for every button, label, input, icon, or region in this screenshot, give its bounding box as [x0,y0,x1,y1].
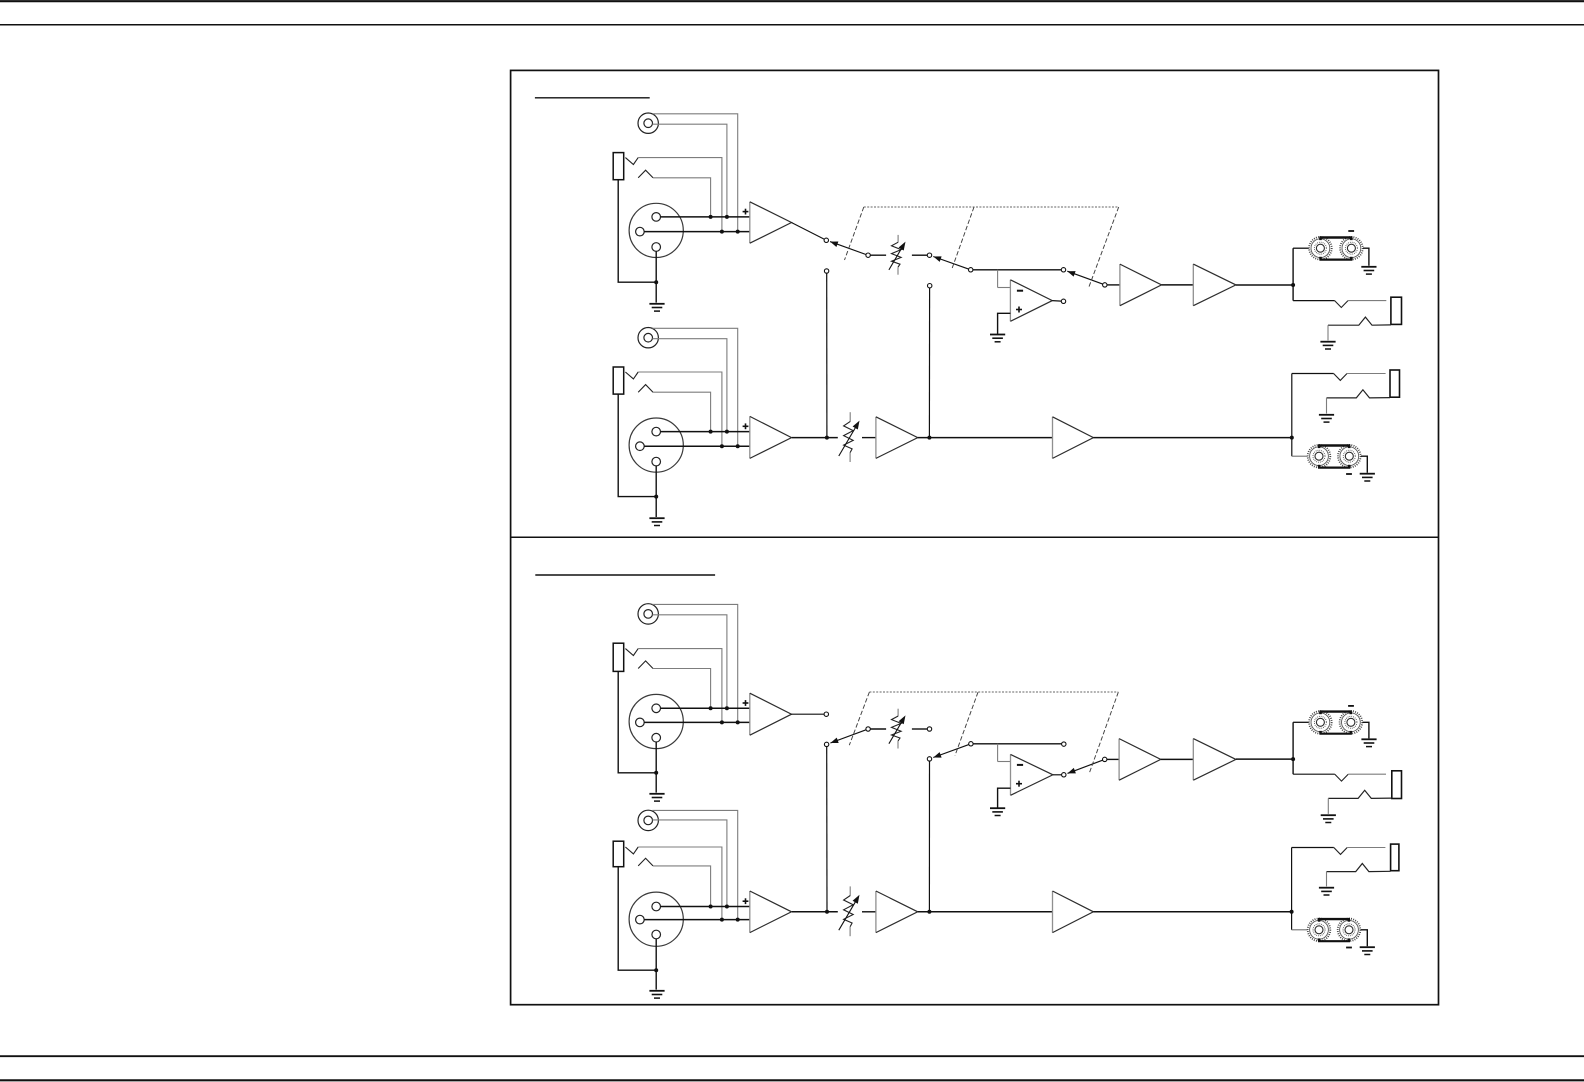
connector phone jack J1 (block1 ch A) tip contact [625,158,638,165]
node S4 contact b [824,742,828,746]
wire TB2 ground lead [1361,456,1367,473]
wire output B to posts (block2) [1292,929,1308,931]
node J3 (block2 ch A) plus label [743,700,749,706]
ground output jack P1 (block1 ch A) ground [1320,342,1335,349]
wire page top rule [0,0,1584,2]
wire output B vertical up (block2) [1291,848,1293,912]
connector phone jack J4 (block2 ch B) ring contact [638,858,653,866]
connector XLR J2 (block1 ch B) pin 3 [652,457,661,466]
wire U3 to U4 [1162,284,1194,286]
node J1 (block1 ch A) hot junction a [709,215,713,219]
node TB1 (block1 ch A) top bar [1319,238,1352,241]
wire phone jack J3 (block2 ch A) tip lead [638,649,722,723]
node U9 (block2) minus label [1017,764,1023,766]
resistor trim pot VR3 (block2 ch A) wiper arrow [889,715,906,743]
wire J3 (block2 ch A) pin3 ground stem [655,742,657,793]
wire S2 common to S3 contact a [973,269,1061,271]
wire S1 contact b to ch B bus [826,273,828,437]
connector XLR J4 (block2 ch B) shell [629,892,683,946]
wire S5 gang slant [955,692,978,755]
wire S4 gang slant [849,692,869,745]
node TB2 (block1 ch B) top bar [1318,446,1351,449]
connector output jack P2 (block1 ch B) sleeve [1390,370,1400,397]
connector output jack P3 (block2 ch A) tip contact [1335,774,1348,781]
node J2 (block1 ch B) hot junction a [709,430,713,434]
wire RCA J1 (block1 ch A) tip lead [652,124,727,217]
wire phone jack J4 (block2 ch B) tip lead [638,847,722,920]
connector output jack P1 (block1 ch A) tip contact [1335,301,1348,308]
connector XLR J4 (block2 ch B) pin 1 [636,915,645,924]
wire S2 contact b to ch B bus [928,288,930,438]
wire S2 gang slant [952,207,975,270]
node TB2 (block1 ch B) bottom bar [1318,465,1351,468]
resistor trim pot VR3 (block2 ch A) top stub [897,709,899,716]
node J4 (block2 ch B) hot junction b [725,905,729,909]
connector output jack P2 (block1 ch B) tip lead [1292,373,1334,375]
node S6 contact b [1062,773,1066,777]
ground output jack P2 (block1 ch B) ground [1319,415,1334,422]
wire U9 (block2) inverting tap [998,744,1011,762]
wire J3 (block2 ch A) cold bus [644,721,750,723]
ground TB4 ground [1360,947,1375,954]
node S6 common [1103,757,1107,761]
connector binding post TB4 (block2 ch B) - [1338,919,1361,942]
resistor trim pot VR3 (block2 ch A) bottom stub [897,741,899,749]
node J3 (block2 ch A) hot junction a [709,706,713,710]
wire output B vertical down (block2) [1291,912,1293,930]
node output B junction (block2) [1290,910,1294,914]
node TB4 (block2 ch B) top bar [1318,919,1350,922]
wire J4 (block2 ch B) cold bus [644,919,750,921]
connector output jack P4 (block2 ch B) tip contact [1334,848,1347,855]
node S2 contact b [928,284,932,288]
node U9 (block2) plus label [1016,781,1022,787]
ground TB1 ground [1361,267,1376,274]
switch lever S6 (block2) [1068,760,1103,773]
resistor trim pot VR4 (block2 ch B) wiper arrow [839,895,860,930]
wire output jack P2 (block1 ch B) tip tail [1347,373,1386,375]
ground U9 (block2) reference ground [990,808,1005,815]
node title underline block 1 [535,97,650,99]
connector output jack P4 (block2 ch B) sleeve [1391,844,1399,871]
node J1 (block1 ch A) cold junction a [720,230,724,234]
wire RCA J4 (block2 ch B) shield lead [652,810,737,919]
wire U8 output to S4 contact a [791,713,824,715]
wire S4 contact b to ch B bus [826,747,828,912]
wire U1 output to S1 contact a [791,223,826,241]
wire U2 (block1) inverting tap [998,270,1011,288]
wire RCA J1 (block1 ch A) shield lead [652,114,737,232]
wire S3 common to U3 [1107,284,1120,286]
wire U9 output [1053,774,1062,776]
connector phone jack J4 (block2 ch B) tip contact [625,847,638,854]
connector RCA jack J1 (block1 ch A) [638,113,658,133]
node ch B junction a (block2) [825,910,829,914]
node J3 (block2 ch A) cold junction b [736,720,740,724]
connector output jack P4 (block2 ch B) tip lead [1292,847,1334,849]
connector RCA jack J2 (block1 ch B) [638,328,658,348]
wire output jack P3 (block2 ch A) ground stem [1327,798,1329,814]
op-amp input buffer J3 (block2 ch A) [750,693,792,735]
node title underline block 2 [535,574,715,576]
resistor trim pot VR2 (block1 ch B) top stub [849,412,851,421]
ground J3 (block2 ch A) input ground [649,794,664,801]
node S5 contact a [927,727,931,731]
node TB3 (block2 ch A) bottom bar [1319,731,1352,734]
wire S5 contact b to ch B bus [928,761,930,912]
wire output jack P1 (block1 ch A) tip tail [1348,300,1386,302]
connector binding post TB4 (block2 ch B) + [1308,919,1331,942]
node J3 (block2 ch A) cold junction a [720,720,724,724]
node TB4 (block2 ch B) minus label [1346,947,1352,949]
node J3 (block2 ch A) hot junction b [725,706,729,710]
op-amp inverter U2 (block1) [1010,280,1052,322]
connector XLR J1 (block1 ch A) pin 2 [652,213,661,222]
op-amp inverter U9 (block2) [1011,754,1053,795]
switch lever S3 (block1) [1067,271,1102,284]
node J3 (block2 ch A) ground junction [654,771,658,775]
node J1 (block1 ch A) ground junction [654,280,658,284]
wire S1 gang slant [845,207,864,260]
connector phone jack J1 (block1 ch A) ring contact [638,170,653,178]
node S3 common [1103,283,1107,287]
node S6 contact a [1062,742,1066,746]
wire J1 (block1 ch A) sleeve ground run [618,180,656,283]
connector phone jack J3 (block2 ch A) tip contact [625,649,638,656]
node J1 (block1 ch A) plus label [743,209,749,215]
node TB2 (block1 ch B) minus label [1346,473,1352,475]
resistor trim pot VR1 (block1 ch A) bottom stub [897,267,899,275]
connector XLR J1 (block1 ch A) pin 3 [652,243,661,252]
wire U7 to output node [1093,437,1291,439]
connector XLR J2 (block1 ch B) pin 1 [636,442,645,451]
switch lever S2 (block1) [933,256,968,269]
wire J2 (block1 ch B) hot bus [661,431,750,433]
wire page bottom rule [0,1079,1584,1081]
connector phone jack J2 (block1 ch B) tip contact [625,372,638,379]
ground output jack P3 (block2 ch A) ground [1321,815,1336,822]
connector phone jack J3 (block2 ch A) sleeve [613,643,624,671]
resistor trim pot VR4 (block2 ch B) bottom stub [849,927,851,936]
connector binding post TB2 (block1 ch B) - [1338,445,1361,468]
node J4 (block2 ch B) ground junction [654,968,658,972]
connector XLR J3 (block2 ch A) pin 1 [636,718,645,727]
node J2 (block1 ch B) hot junction b [725,430,729,434]
wire U14 to output node [1093,911,1291,913]
ground J4 (block2 ch B) input ground [649,991,664,998]
ground TB3 ground [1361,739,1376,746]
wire TB1 ground lead [1363,248,1369,266]
resistor trim pot VR1 (block1 ch A) element [892,242,902,267]
node J2 (block1 ch B) plus label [743,423,749,429]
connector binding post TB3 (block2 ch A) - [1340,711,1363,734]
op-amp driver U4 (block1) [1193,264,1236,306]
wire U13 to U14 [918,911,1053,913]
connector XLR J3 (block2 ch A) pin 2 [652,704,661,713]
connector phone jack J3 (block2 ch A) ring contact [638,661,653,669]
connector output jack P2 (block1 ch B) tip contact [1334,374,1347,381]
op-amp input buffer J2 (block1 ch B) [750,416,792,458]
wire TB3 ground lead [1363,722,1369,738]
resistor trim pot VR3 (block2 ch A) element [892,716,902,741]
node output A junction (block1) [1291,283,1295,287]
wire phone jack J2 (block1 ch B) ring lead [653,392,711,431]
wire S6 gang slant [1090,692,1119,772]
wire S3 gang slant [1089,207,1119,288]
wire RCA J3 (block2 ch A) tip lead [652,615,727,709]
node TB1 (block1 ch A) bottom bar [1319,257,1352,260]
connector XLR J1 (block1 ch A) pin 1 [636,227,645,236]
node J4 (block2 ch B) plus label [743,898,749,904]
op-amp driver U3 (block1) [1120,264,1162,306]
wire S4 common to VR3 [870,728,886,730]
resistor trim pot VR1 (block1 ch A) top stub [897,235,899,242]
op-amp driver U6 (block1 ch B) [876,417,918,459]
ground output jack P4 (block2 ch B) ground [1319,888,1334,895]
node S2 common [969,268,973,272]
node J1 (block1 ch A) hot junction b [725,215,729,219]
node ch B junction b (block1) [927,436,931,440]
resistor trim pot VR4 (block2 ch B) element [844,896,854,927]
connector XLR J2 (block1 ch B) pin 2 [652,427,661,436]
node S1 contact a [824,238,828,242]
connector XLR J4 (block2 ch B) pin 3 [652,930,661,939]
connector XLR J4 (block2 ch B) pin 2 [652,902,661,911]
wire VR4 to U13 [862,911,876,913]
node J2 (block1 ch B) cold junction b [736,444,740,448]
node schematic frame [511,70,1439,1004]
wire S1-S2-S3 gang link [864,206,1119,208]
connector XLR J3 (block2 ch A) pin 3 [652,733,661,742]
node S3 contact a [1061,268,1065,272]
wire frame divider [511,536,1439,538]
wire U2 (block1) non-inverting input [998,313,1011,334]
wire S4-S5-S6 gang link [869,691,1118,693]
node TB3 (block2 ch A) minus label [1348,705,1354,707]
switch lever S5 (block2) [933,745,969,758]
ground J2 (block1 ch B) input ground [649,518,664,525]
ground TB2 ground [1360,474,1375,481]
node S1 contact b [824,269,828,273]
wire output A vertical [1292,248,1294,300]
wire U4 to output node [1236,284,1293,286]
wire output A to posts [1293,247,1309,249]
node S3 contact b [1061,299,1065,303]
wire J2 (block1 ch B) sleeve ground run [618,394,656,497]
wire phone jack J1 (block1 ch A) ring lead [653,178,711,217]
wire output B vertical up [1291,374,1293,438]
node J4 (block2 ch B) cold junction b [736,918,740,922]
connector phone jack J4 (block2 ch B) sleeve [613,841,624,867]
node U2 (block1) plus label [1016,307,1022,313]
op-amp input buffer J1 (block1 ch A) [750,202,792,243]
node J2 (block1 ch B) ground junction [654,495,658,499]
connector phone jack J2 (block1 ch B) ring contact [638,385,653,393]
connector output jack P1 (block1 ch A) sleeve [1391,297,1402,324]
wire J1 (block1 ch A) pin3 ground stem [655,251,657,302]
op-amp driver U10 (block2) [1119,739,1161,781]
wire output jack P2 (block1 ch B) ground stem [1326,398,1328,414]
wire output jack P4 (block2 ch B) tip tail [1347,847,1385,849]
node S5 contact b [927,757,931,761]
op-amp input buffer J4 (block2 ch B) [750,891,792,933]
wire RCA J4 (block2 ch B) tip lead [652,820,727,907]
wire J2 (block1 ch B) pin3 ground stem [655,466,657,517]
wire output A vertical (block2) [1292,722,1294,774]
node S4 contact a [824,712,828,716]
wire TB4 ground lead [1361,930,1368,946]
wire RCA J3 (block2 ch A) shield lead [652,604,737,722]
wire U9 (block2) non-inverting input [998,788,1011,807]
wire U10 to U11 [1161,758,1194,760]
wire RCA J2 (block1 ch B) shield lead [652,328,737,446]
wire output jack P1 (block1 ch A) ground stem [1327,325,1329,340]
node S1 common [866,253,870,257]
resistor trim pot VR2 (block1 ch B) bottom stub [849,453,851,462]
resistor trim pot VR2 (block1 ch B) wiper arrow [839,421,860,456]
ground J1 (block1 ch A) input ground [649,304,664,311]
connector phone jack J1 (block1 ch A) sleeve [613,153,624,180]
node J2 (block1 ch B) cold junction a [720,444,724,448]
wire J4 (block2 ch B) pin3 ground stem [655,939,657,990]
connector XLR J2 (block1 ch B) shell [629,418,683,472]
connector RCA jack J4 (block2 ch B) [638,810,658,830]
connector binding post TB1 (block1 ch A) - [1340,237,1363,260]
wire J3 (block2 ch A) hot bus [661,707,750,709]
connector output jack P4 (block2 ch B) ring contact [1327,864,1391,872]
op-amp driver U13 (block2 ch B) [876,891,918,933]
switch lever S4 (block2) [830,730,866,743]
wire output A to posts (block2) [1293,721,1309,723]
connector binding post TB2 (block1 ch B) + [1308,445,1331,468]
wire output jack P3 (block2 ch A) tip tail [1348,773,1386,775]
op-amp driver U7 (block1 ch B) [1053,417,1094,459]
connector XLR J3 (block2 ch A) shell [629,694,683,748]
connector phone jack J2 (block1 ch B) sleeve [613,367,624,394]
wire page header rule [0,24,1584,26]
wire J4 (block2 ch B) hot bus [661,906,750,908]
connector output jack P1 (block1 ch A) ring contact [1328,317,1391,325]
node output B junction (block1) [1290,436,1294,440]
wire VR1 to S2 contact a [912,254,927,256]
wire J3 (block2 ch A) sleeve ground run [618,671,656,772]
connector XLR J1 (block1 ch A) shell [629,203,683,257]
wire U12 output to VR4 [792,911,838,913]
wire S6 common to U10 [1107,758,1119,760]
wire U11 to output node [1236,758,1293,760]
node TB3 (block2 ch A) top bar [1319,712,1352,715]
wire J2 (block1 ch B) cold bus [644,445,750,447]
connector output jack P2 (block1 ch B) ring contact [1327,390,1391,398]
wire VR2 to U6 [862,437,876,439]
wire VR3 to S5 contact a [912,728,927,730]
node S2 contact a [927,253,931,257]
wire J4 (block2 ch B) sleeve ground run [618,867,656,971]
switch lever S1 (block1) [830,242,866,255]
node TB1 (block1 ch A) minus label [1348,230,1354,232]
node S5 common [969,742,973,746]
wire U2 output [1052,300,1061,303]
wire phone jack J4 (block2 ch B) ring lead [653,866,711,907]
connector binding post TB1 (block1 ch A) + [1309,237,1332,260]
resistor trim pot VR1 (block1 ch A) wiper arrow [889,242,906,270]
wire output B vertical down [1291,438,1293,457]
op-amp driver U14 (block2 ch B) [1053,891,1094,933]
node ch B junction b (block2) [927,910,931,914]
resistor trim pot VR4 (block2 ch B) top stub [849,886,851,895]
wire output B to posts [1292,455,1308,457]
connector output jack P3 (block2 ch A) ring contact [1328,790,1392,798]
wire J1 (block1 ch A) cold bus [644,231,750,233]
ground U2 (block1) reference ground [990,335,1005,342]
node TB4 (block2 ch B) bottom bar [1318,938,1350,941]
wire RCA J2 (block1 ch B) tip lead [652,339,727,432]
connector RCA jack J3 (block2 ch A) [638,604,658,624]
wire S1 common to VR1 [870,254,886,256]
node output A junction (block2) [1291,757,1295,761]
op-amp driver U11 (block2) [1193,739,1236,781]
wire phone jack J1 (block1 ch A) tip lead [638,158,722,232]
node J4 (block2 ch B) hot junction a [709,905,713,909]
resistor trim pot VR2 (block1 ch B) element [844,421,854,452]
connector output jack P3 (block2 ch A) tip lead [1293,773,1335,775]
connector output jack P3 (block2 ch A) sleeve [1392,771,1402,799]
node J1 (block1 ch A) cold junction b [736,230,740,234]
node J4 (block2 ch B) cold junction a [720,918,724,922]
connector output jack P1 (block1 ch A) tip lead [1293,300,1335,302]
node U2 (block1) minus label [1017,290,1023,292]
wire U5 output to VR2 [792,437,838,439]
connector binding post TB3 (block2 ch A) + [1309,711,1332,734]
node ch B junction a (block1) [825,436,829,440]
node S4 common [866,727,870,731]
wire U6 to U7 [918,437,1053,439]
wire page footer rule [0,1055,1584,1057]
wire output jack P4 (block2 ch B) ground stem [1326,872,1328,887]
wire phone jack J3 (block2 ch A) ring lead [653,669,711,709]
wire J1 (block1 ch A) hot bus [661,216,750,218]
wire phone jack J2 (block1 ch B) tip lead [638,372,722,446]
wire S5 common to S6 contact a [973,743,1062,745]
